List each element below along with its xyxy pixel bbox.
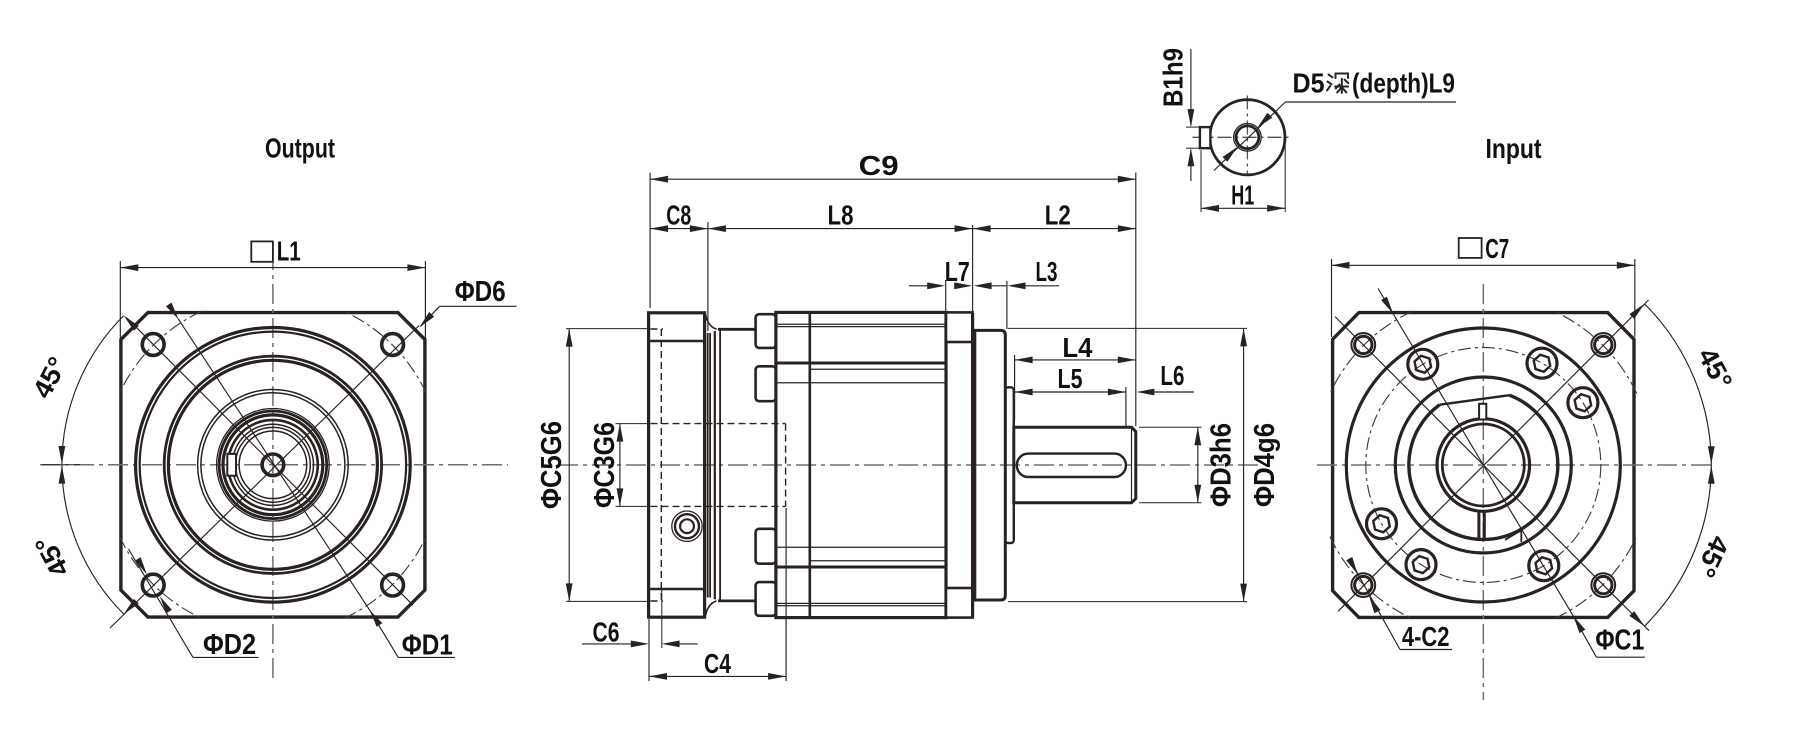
input hub disc — [975, 330, 1006, 600]
dim H1 — [1200, 150, 1202, 212]
output horizontal centerline — [40, 464, 508, 466]
input pilot circle — [1395, 377, 1571, 553]
dim PhiD3h6 — [1139, 426, 1202, 428]
svg-text:ΦD1: ΦD1 — [402, 630, 453, 662]
svg-text:L6: L6 — [1160, 360, 1184, 391]
dim C8 L8 L2 — [707, 222, 709, 331]
output flange side rect — [649, 313, 705, 617]
svg-text:L2: L2 — [1045, 200, 1071, 231]
dim L3 — [1006, 281, 1008, 329]
output concentric circles — [136, 328, 411, 603]
bearing boss — [1005, 387, 1014, 543]
input clamp tab — [1505, 531, 1521, 542]
output diagonal TL-BR — [127, 318, 413, 605]
flange screw — [672, 511, 702, 541]
input horizontal centerline — [1317, 464, 1714, 466]
dim PhiD4g6 — [1008, 327, 1247, 329]
input diagonal BL-TR — [1338, 300, 1649, 611]
shaft end chamfer line — [1131, 428, 1133, 502]
svg-text:ΦD3h6: ΦD3h6 — [1206, 423, 1238, 507]
svg-text:C6: C6 — [593, 616, 620, 647]
dim 45deg arcs output — [62, 316, 124, 465]
output shaft keyway — [227, 454, 236, 476]
svg-text:ΦD2: ΦD2 — [203, 629, 256, 661]
screw at 60deg — [1527, 348, 1557, 378]
collar outline — [714, 331, 716, 599]
dim L7 — [945, 280, 947, 311]
dim PhiD1 diameter line — [178, 319, 370, 611]
svg-text:L1: L1 — [277, 236, 301, 267]
svg-text:(depth)L9: (depth)L9 — [1352, 68, 1455, 99]
svg-text:D5: D5 — [1293, 68, 1325, 99]
input bore keyway notch — [1479, 404, 1486, 420]
svg-text:Output: Output — [265, 133, 335, 164]
output diagonal BL-TR — [110, 326, 419, 629]
svg-text:ΦD4g6: ΦD4g6 — [1249, 423, 1281, 507]
svg-text:L4: L4 — [1062, 332, 1092, 363]
dim L5 — [1125, 387, 1127, 426]
dim C9 — [649, 173, 651, 309]
motor mount ear blocks — [756, 314, 776, 348]
detail shaft circle — [1210, 100, 1285, 175]
dim PhiC5G6 — [566, 328, 649, 330]
input bore circles — [1437, 419, 1530, 512]
input clamp collar with flat — [1409, 395, 1558, 539]
screw at 32deg — [1568, 388, 1598, 418]
dim L4 — [1014, 355, 1016, 420]
output bolt circle dash-dot arcs — [120, 311, 202, 393]
dim L1 extension lines — [119, 261, 121, 341]
dim L6 — [1136, 389, 1154, 396]
screw at 301deg — [1529, 551, 1559, 581]
detail diagonal leader with arrows — [1214, 102, 1285, 171]
dim PhiC3G6 — [616, 423, 651, 425]
svg-text:ΦD6: ΦD6 — [455, 276, 506, 308]
dim 45deg arcs input — [1645, 304, 1712, 465]
output center hole — [262, 454, 284, 476]
CJK glyph shen (depth) — [1327, 74, 1348, 94]
input flange plate edge — [971, 313, 974, 618]
spacer ring lines — [707, 333, 709, 598]
middle hidden bore rectangle dashed — [651, 423, 786, 425]
dim PhiC1 diameter line — [1378, 289, 1574, 618]
svg-text:ΦC1: ΦC1 — [1595, 625, 1644, 657]
rear tabs — [946, 312, 973, 342]
input shaft — [1014, 427, 1136, 503]
screw at 238deg — [1406, 550, 1436, 580]
svg-text:C7: C7 — [1485, 233, 1509, 264]
svg-text:B1h9: B1h9 — [1158, 48, 1189, 107]
input square outline — [1333, 313, 1634, 618]
dim B1h9 — [1186, 126, 1201, 128]
svg-text:4-C2: 4-C2 — [1402, 621, 1450, 652]
fillet curves flange to collar — [706, 314, 717, 329]
input bolt circle dash-dot arcs — [1330, 312, 1412, 394]
input clamp slot — [1477, 511, 1480, 540]
svg-text:H1: H1 — [1231, 180, 1254, 211]
detail center hole D5 — [1234, 124, 1262, 152]
svg-text:Input: Input — [1486, 133, 1542, 164]
output corner holes — [142, 334, 164, 356]
detail keyway tab — [1200, 127, 1211, 148]
output flange square outline — [121, 313, 425, 617]
dim C7 square symbol — [1459, 238, 1482, 258]
body interior lines — [777, 323, 945, 325]
dim PhiD2 leader line — [129, 549, 194, 657]
svg-text:L8: L8 — [828, 200, 854, 231]
dim L1 square symbol — [251, 241, 273, 261]
screw at 210deg — [1367, 509, 1397, 539]
dim L1 line with arrows — [120, 267, 425, 269]
svg-text:C8: C8 — [666, 200, 691, 231]
svg-text:L3: L3 — [1036, 256, 1058, 287]
input corner holes — [1351, 333, 1375, 357]
svg-text:L7: L7 — [945, 256, 970, 287]
svg-text:L5: L5 — [1058, 363, 1083, 394]
shaft keyway slot — [1017, 454, 1126, 477]
main body rect — [776, 312, 946, 617]
dim C4 — [648, 619, 650, 681]
middle hidden pilot lines dashed — [651, 328, 664, 330]
middle view horizontal centerline — [558, 464, 1258, 466]
input boss circle — [1346, 328, 1620, 602]
screw at 121deg — [1408, 349, 1438, 379]
input diagonal TL-BR — [1335, 317, 1649, 631]
dim C7 lines — [1331, 259, 1333, 337]
dim PhiD6 leader — [440, 305, 517, 307]
svg-text:ΦC3G6: ΦC3G6 — [589, 422, 621, 508]
dim C6 — [582, 643, 631, 645]
input screw bolt circle dash-dot — [1366, 348, 1601, 583]
svg-text:ΦC5G6: ΦC5G6 — [536, 421, 568, 509]
dim 4-C2 leader — [1349, 559, 1400, 650]
flange inner chamfer lines — [650, 340, 703, 343]
input vertical centerline — [1482, 284, 1484, 700]
output vertical centerline — [272, 250, 274, 682]
body ring gear vertical — [808, 314, 811, 616]
detail crosshair — [1193, 136, 1291, 138]
svg-text:C4: C4 — [704, 648, 731, 679]
svg-text:C9: C9 — [859, 150, 899, 181]
